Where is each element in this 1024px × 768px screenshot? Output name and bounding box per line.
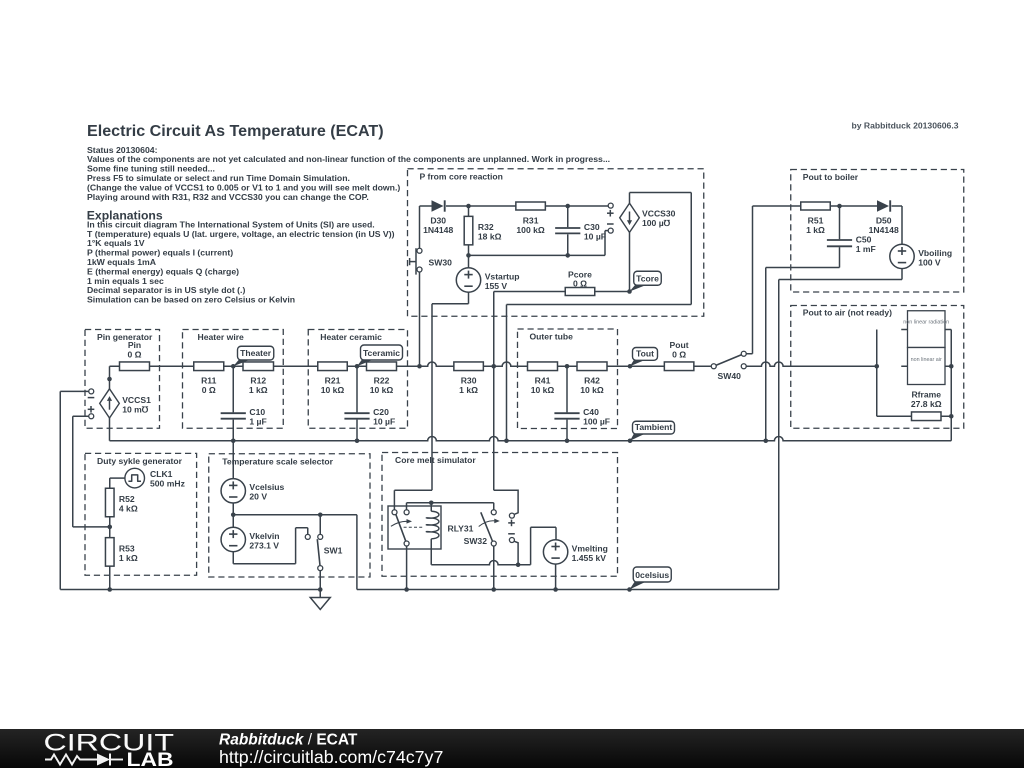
svg-text:LAB: LAB — [127, 749, 174, 768]
svg-text:http://circuitlab.com/c74c7y7: http://circuitlab.com/c74c7y7 — [219, 747, 443, 767]
